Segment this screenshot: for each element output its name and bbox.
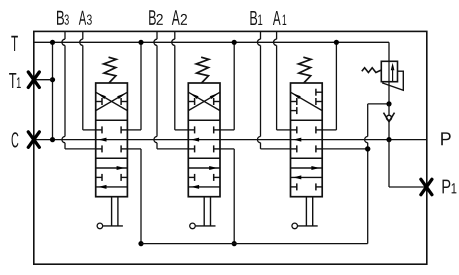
wire valve 1 upper port to T rail (127, 129, 141, 131)
port label B2 (149, 10, 163, 25)
wire P rail to P1 port (388, 140, 390, 187)
valve 1 body (291, 83, 323, 197)
wire B2 drop (156, 31, 158, 39)
plug X at port P1 (421, 179, 432, 194)
port label C (12, 132, 19, 147)
wire relief valve to junction (388, 82, 390, 104)
port label P1 (443, 180, 457, 194)
wire check valve to P rail (388, 122, 390, 140)
valve 2 neutral bypass arrow (191, 138, 199, 142)
valve 3 neutral blocked ports upper (96, 129, 102, 131)
T rail drop to relief valve (388, 42, 390, 61)
valve 1 work position blocked ports (291, 186, 297, 188)
port label A2 (172, 10, 187, 25)
wire A1 drop (276, 31, 278, 39)
junction dot T1 / left link (50, 77, 55, 82)
valve 1 top position blocked ports (316, 91, 322, 93)
valve 3 return spring (104, 57, 117, 83)
C-P pressure rail (34, 139, 427, 141)
valve 1 top position diagonal arrow (291, 92, 323, 110)
junction dot bypass at lower rail (365, 146, 370, 151)
T return rail (34, 41, 389, 43)
bypass drop wire (368, 103, 389, 105)
port label A1 (273, 11, 286, 25)
plug X at port T1 (28, 72, 39, 87)
port label B3 (57, 11, 69, 25)
valve 3 float position blocked ports (96, 101, 102, 103)
port label A3 (79, 11, 92, 25)
valve 1 neutral blocked ports upper (291, 129, 297, 131)
port label B1 (250, 11, 262, 25)
relief valve U1 body (381, 61, 397, 81)
valve 3 body (96, 83, 128, 197)
valve 3 float position crossed arrows (96, 92, 128, 110)
port label T (11, 36, 18, 51)
wire B1 drop (260, 31, 262, 39)
wire valve 2 lower port to bottom rail (220, 148, 234, 150)
valve 1 manual lever (305, 197, 307, 226)
valve 3 manual lever (111, 197, 113, 226)
port label T1 (9, 73, 21, 88)
wire junction to check valve (388, 104, 390, 115)
junction dot T rail / left link (50, 40, 55, 45)
relief valve spring (362, 68, 382, 73)
relief valve pilot flag (382, 71, 403, 90)
plug X at port C (28, 132, 39, 147)
wire valve 1 lower port to bottom rail (127, 148, 141, 150)
wire valve 3 lower port to bypass (322, 148, 368, 150)
T1 port stub (34, 79, 53, 81)
valve 2 return spring (196, 57, 209, 83)
junction dot relief outlet (386, 101, 391, 106)
wire A2 drop (174, 31, 176, 39)
wire B3 drop (64, 31, 66, 39)
valve 2 neutral blocked ports upper (188, 129, 194, 131)
port label P (441, 132, 451, 145)
valve 2 float position crossed arrows (188, 92, 220, 110)
wire valve 3 upper port to T rail (322, 129, 336, 131)
valve 3 neutral blocked ports lower (96, 148, 102, 150)
junction dot C rail / left link (50, 137, 55, 142)
valve 2 work position blocked ports (188, 176, 194, 178)
valve 2 manual lever (203, 197, 205, 226)
junction dot P rail (386, 137, 391, 142)
left vertical T-T1-C link (52, 42, 54, 139)
check valve CV1 (387, 115, 392, 120)
valve 1 work position flow paths (291, 167, 323, 169)
valve 2 neutral blocked ports lower (188, 148, 194, 150)
valve 1 neutral bypass arrow (293, 138, 301, 142)
valve 2 float position blocked ports (188, 101, 194, 103)
valve 1 return spring (298, 57, 311, 83)
wire valve 2 upper port to T rail (220, 129, 234, 131)
valve 2 body (188, 83, 220, 197)
bottom rail (141, 243, 368, 245)
hydraulic manifold block outline (34, 31, 427, 264)
valve 3 neutral bypass arrow (98, 138, 106, 142)
wire A3 drop (82, 31, 84, 39)
valve 1 neutral blocked ports lower (291, 148, 297, 150)
valve 3 work position flow paths (96, 167, 128, 169)
valve 2 work position flow paths (188, 167, 220, 169)
valve 3 work position blocked ports (96, 176, 102, 178)
